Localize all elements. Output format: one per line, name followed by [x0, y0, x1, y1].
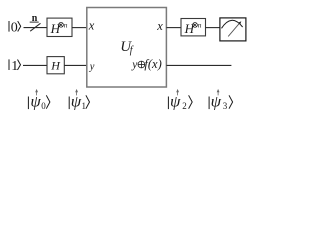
state label |psi2>: [168, 93, 192, 111]
port label y(+)f(x) (output): [131, 57, 162, 71]
wire top from Hn gate to meter: [206, 27, 221, 29]
bus slash /: [30, 23, 40, 31]
wire top from Hn gate to Uf: [72, 27, 87, 29]
svg-text:n: n: [198, 21, 202, 30]
svg-text:1: 1: [82, 101, 87, 111]
svg-text:n: n: [64, 20, 68, 29]
svg-text:y: y: [131, 59, 138, 71]
svg-text:H: H: [50, 58, 61, 72]
state label |psi1>: [69, 93, 89, 111]
ket |0> input label: [9, 20, 21, 35]
svg-text:ψ: ψ: [211, 93, 223, 110]
svg-text:0: 0: [41, 101, 46, 111]
svg-text:2: 2: [182, 101, 187, 111]
measurement meter: [220, 18, 246, 41]
svg-text:x: x: [156, 19, 163, 33]
time marker arrow for psi3: [217, 89, 220, 96]
Hadamard gate H^(x)n (first): [47, 18, 72, 36]
svg-text:ψ: ψ: [30, 93, 42, 110]
ket |1> input label: [9, 59, 21, 74]
wire top from Uf to Hn gate (second): [166, 27, 181, 29]
state label |psi3>: [209, 93, 233, 111]
svg-text:y: y: [89, 61, 95, 72]
wire bottom from Uf output to end: [166, 64, 231, 66]
svg-text:f(x): f(x): [144, 57, 161, 71]
Hadamard gate H^(x)n (second): [181, 19, 206, 36]
svg-text:3: 3: [223, 101, 228, 111]
time marker arrow for psi2: [176, 89, 179, 96]
svg-text:x: x: [88, 18, 95, 32]
bus width label n with underline: [30, 13, 39, 24]
wire top from |0> to Hn gate: [24, 27, 48, 29]
Hadamard gate H (second qubit): [47, 57, 64, 74]
oracle box Uf: [87, 8, 167, 88]
svg-text:1: 1: [11, 59, 18, 74]
state label |psi0>: [28, 93, 50, 111]
time marker arrow for psi1: [75, 89, 78, 96]
svg-text:0: 0: [11, 20, 18, 35]
wire bottom from |1> to H gate: [23, 64, 47, 66]
time marker arrow for psi0: [35, 89, 38, 96]
wire bottom from H gate to Uf: [64, 64, 87, 66]
svg-text:ψ: ψ: [170, 93, 182, 110]
